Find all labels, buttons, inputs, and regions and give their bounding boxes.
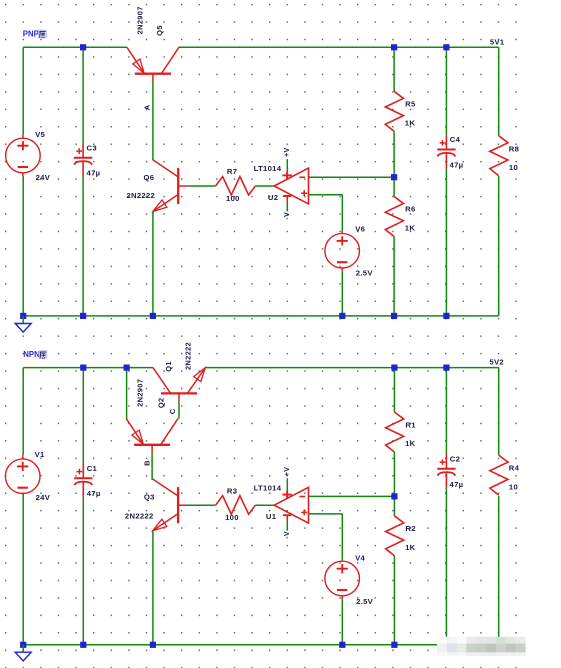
svg-text:PNP: PNP xyxy=(23,29,39,38)
svg-text:Q2: Q2 xyxy=(157,397,166,408)
svg-text:R1: R1 xyxy=(405,420,416,429)
svg-text:1K: 1K xyxy=(405,119,416,128)
svg-text:2N2907: 2N2907 xyxy=(136,6,145,34)
svg-text:V5: V5 xyxy=(35,130,45,139)
svg-text:U1: U1 xyxy=(266,512,277,521)
svg-text:1K: 1K xyxy=(405,224,416,233)
svg-text:24V: 24V xyxy=(36,493,51,502)
svg-text:2.5V: 2.5V xyxy=(356,597,374,606)
svg-text:2N2907: 2N2907 xyxy=(135,379,144,407)
svg-text:R8: R8 xyxy=(509,144,520,153)
svg-text:V1: V1 xyxy=(35,450,45,459)
svg-text:100: 100 xyxy=(226,194,240,203)
svg-text:C3: C3 xyxy=(87,143,97,152)
svg-text:+V: +V xyxy=(284,147,291,156)
svg-text:+V: +V xyxy=(284,467,291,476)
svg-text:C: C xyxy=(168,408,177,414)
svg-text:-V: -V xyxy=(284,531,291,539)
svg-text:C2: C2 xyxy=(450,455,460,464)
svg-text:2N2222: 2N2222 xyxy=(184,342,193,370)
svg-text:100: 100 xyxy=(225,513,239,522)
svg-text:R6: R6 xyxy=(405,205,415,214)
svg-text:10: 10 xyxy=(509,163,518,172)
svg-text:Q5: Q5 xyxy=(155,25,164,36)
svg-text:Q1: Q1 xyxy=(164,361,173,372)
svg-text:C1: C1 xyxy=(87,464,98,473)
svg-text:R4: R4 xyxy=(509,463,520,472)
svg-text:-V: -V xyxy=(284,212,291,220)
svg-text:2N2222: 2N2222 xyxy=(126,191,155,200)
svg-text:47µ: 47µ xyxy=(450,480,464,489)
svg-text:2N2222: 2N2222 xyxy=(125,511,154,520)
svg-text:47µ: 47µ xyxy=(87,489,101,498)
svg-text:NPN: NPN xyxy=(23,350,40,359)
svg-text:B: B xyxy=(143,460,152,466)
svg-text:LT1014: LT1014 xyxy=(254,164,282,173)
svg-text:Q3: Q3 xyxy=(144,493,155,502)
svg-text:5V2: 5V2 xyxy=(489,357,504,366)
svg-text:R3: R3 xyxy=(227,486,237,495)
svg-text:R5: R5 xyxy=(405,100,416,109)
svg-text:LT1014: LT1014 xyxy=(254,483,282,492)
svg-text:1K: 1K xyxy=(405,439,416,448)
svg-text:V4: V4 xyxy=(355,554,365,563)
svg-text:10: 10 xyxy=(509,482,518,491)
svg-text:5V1: 5V1 xyxy=(490,38,505,47)
svg-text:Q6: Q6 xyxy=(144,173,155,182)
svg-text:V6: V6 xyxy=(355,225,365,234)
svg-text:47µ: 47µ xyxy=(450,161,464,170)
svg-text:U2: U2 xyxy=(268,193,278,202)
svg-text:R7: R7 xyxy=(227,167,237,176)
svg-text:2.5V: 2.5V xyxy=(356,269,374,278)
svg-text:1K: 1K xyxy=(405,543,416,552)
svg-text:R2: R2 xyxy=(405,524,415,533)
svg-text:C4: C4 xyxy=(450,135,461,144)
svg-text:24V: 24V xyxy=(36,173,51,182)
svg-text:47µ: 47µ xyxy=(87,169,101,178)
svg-text:A: A xyxy=(142,104,151,110)
